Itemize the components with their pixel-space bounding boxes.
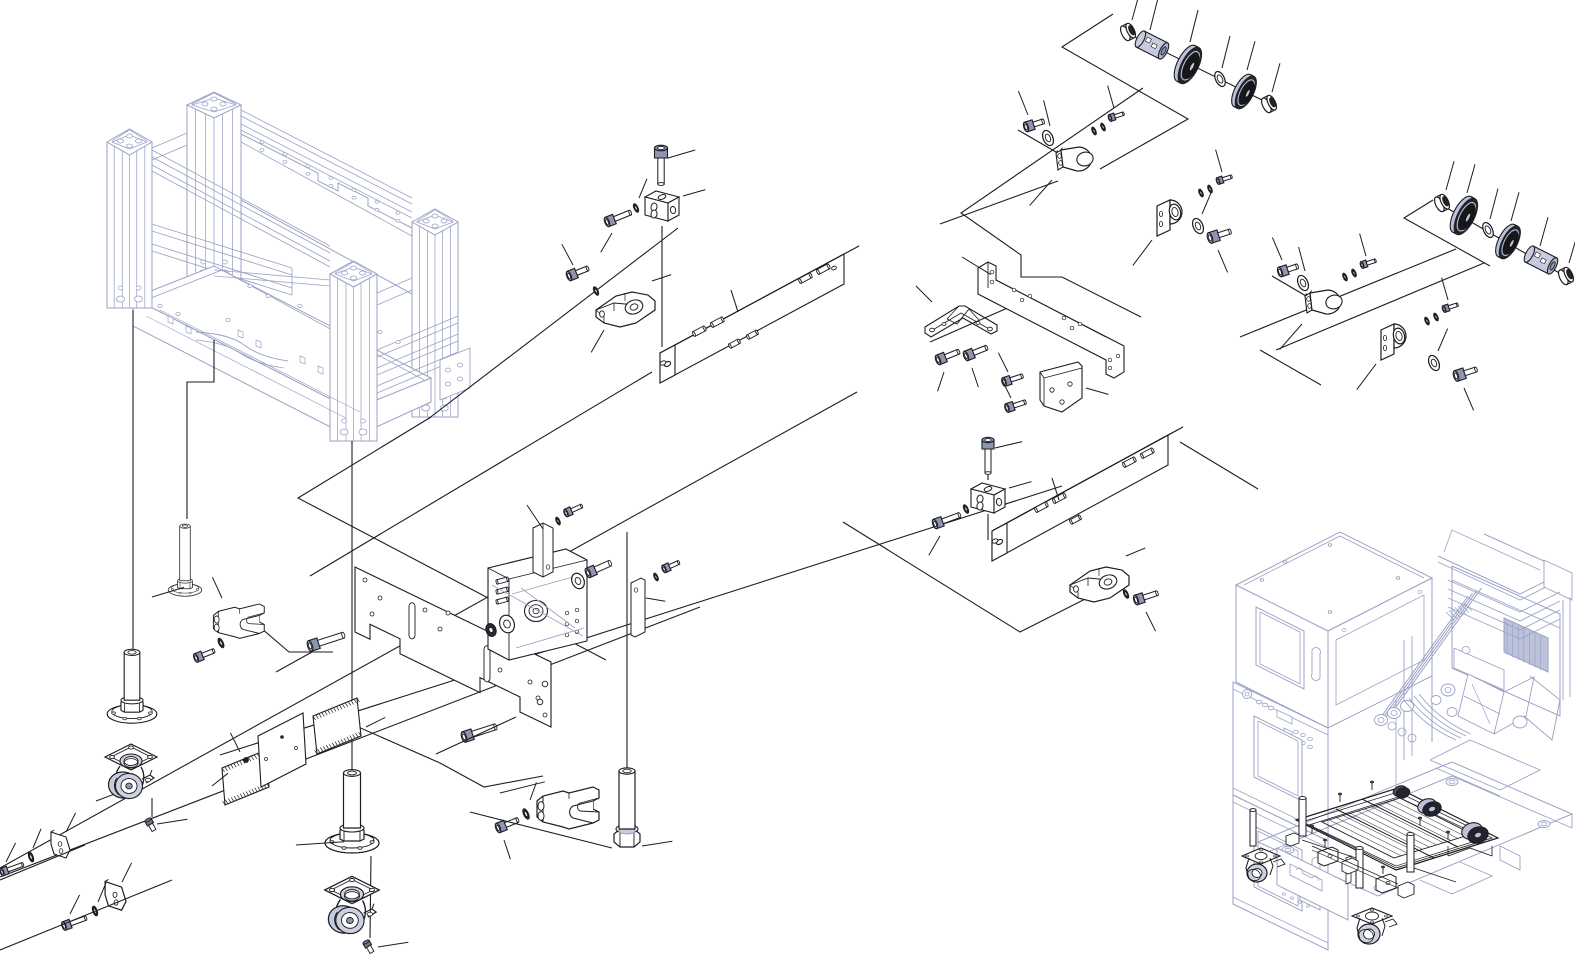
small bolt G4 [1441,301,1459,313]
machine mid front face [1233,682,1328,841]
machine cable loops [1388,722,1396,730]
screw dot on H2 [244,758,249,763]
washer above S1 [555,517,561,526]
tick AB2 [122,863,132,882]
cart roller right 2 [1459,820,1484,842]
leader cube K1 to beam B1 [661,226,663,347]
cart roller right 1 [1416,796,1439,816]
bolt T1 vertical [655,145,668,185]
construction line V through centre [298,417,606,660]
beam B1 [659,246,859,383]
mid rails left opening [152,224,292,268]
small bolt G1 [1107,110,1125,122]
cart caster 1 [1242,848,1285,882]
tick CB1-b [972,368,978,387]
zigzag leader below beam B2 [843,522,1105,632]
axis bolt right lower [436,717,516,754]
leader caster C1 to set screw [151,798,153,817]
leader step from P1 to foot F2 [187,340,214,519]
deck fitting bolts [248,285,252,288]
machine head top face [1236,532,1432,631]
plate A boss hole [525,601,548,622]
assembled machine ghost view [1233,530,1572,950]
corner bracket CB1 [925,306,997,337]
plate A with boss [488,549,587,660]
leveling foot F2 small [168,524,201,596]
plate A pins [496,577,509,585]
cart post 4 [1250,810,1256,846]
apron cutout curve [196,332,288,361]
tick bolt AB2 [70,895,80,914]
beam B2 [991,427,1183,561]
tick small bolt G3 [1360,234,1366,256]
bolt CB1-a [934,347,961,366]
bolt G1 [1022,116,1045,132]
cart bolt studs [1339,795,1341,802]
tick set screw C2 [378,942,408,947]
tick H2 screw [230,733,240,752]
bolt K2 vertical [982,437,994,474]
cart post 2 [1356,848,1363,888]
bolt above S2 [661,558,681,573]
tick WD1 low [591,330,604,352]
washer above S2 [653,573,659,582]
cart caster 2 [1352,908,1397,945]
wedge bracket WD2 [1070,567,1129,602]
bolt for clevis V1 [192,646,216,663]
axis AB2 [0,880,172,950]
machine feeder tray [1454,648,1504,690]
machine base inner line [1282,776,1452,846]
machine control row [1256,700,1261,704]
construction diagonal to bracket G3 lower [1276,263,1484,350]
tick WD1 [652,275,671,281]
small washers G3 [1342,273,1348,282]
tick G3 [1280,324,1302,350]
spacer A [1133,29,1171,60]
machine base corner pads [1282,847,1294,854]
set screw under caster C1 [144,817,157,832]
tick bearing A2 [1247,41,1255,70]
machine inner column [1403,640,1405,760]
zigzag around roller group A [1062,14,1188,169]
small bolt G3 [1359,257,1377,269]
bracket G1 [1056,147,1095,171]
roller group B axis [1440,204,1568,278]
tick bolt T2 [601,233,612,252]
machine low door [1254,826,1302,911]
frame assembly (aluminium extrusion frame, ghost) [107,92,470,441]
axis G3 [1272,276,1306,296]
deck inner edge [146,270,424,380]
tick washer G1 [1044,100,1050,126]
washer T3 [592,286,599,296]
cart gauge strip [1346,856,1351,884]
tick CB1 [916,286,932,302]
bolt WD2 [1132,588,1159,605]
zigzag around roller group B [1404,200,1490,266]
machine chute panels [1458,674,1504,734]
tick bolt G3 [1272,238,1282,260]
zigzag frame bracket G2 region [961,88,1143,317]
machine lower right arm [1430,740,1540,790]
back top rail [241,110,412,198]
cart deck outer rail [1296,788,1498,870]
zigzag leader to clevis V2 [356,726,543,787]
long construction diagonal D1 [0,607,700,877]
washer K2 [962,504,969,514]
leader line from P2 to foot F1 [132,310,134,700]
cross bar with holes [978,262,1124,378]
small bolt G2 [1215,173,1233,185]
plain plate H2 [258,713,306,787]
caster C1 [105,744,157,800]
nut B2 [1557,266,1575,286]
nut A1 [1119,22,1138,42]
machine belt rollers top [1441,684,1455,696]
small washers G1 [1091,127,1097,136]
cart side brace [1302,840,1356,858]
tick beam B2 [1052,478,1059,500]
back post P1 [187,105,241,282]
axis long bolt [276,652,312,672]
tick cube K2 [1009,482,1031,488]
L bracket LB1 [1040,362,1082,412]
cart valve block 2 [1376,874,1396,893]
bolt T3 [565,263,590,281]
machine base plate [1258,762,1572,896]
tick bolt V2 [504,840,510,859]
cart fitting 1 [1342,858,1358,874]
machine hose bundle [1404,700,1456,740]
right apron [352,378,431,438]
leader bracket G2 to bar [940,181,1058,224]
machine right arm lower [1524,676,1560,740]
tick spacer B [1540,217,1548,246]
cart deck inner rail [1302,792,1492,868]
machine control knob [1243,690,1252,699]
cube K2 [971,483,1005,513]
clevis V2 [537,787,599,829]
machine low handle [1312,858,1321,891]
bolt above S1 [563,502,584,517]
machine drawer dots [1283,893,1286,895]
set screw under caster C2 [362,939,375,954]
back post P3 [412,222,458,417]
long construction diagonal D1b [220,486,1062,755]
roller group A axis [1125,32,1270,104]
nut B1 [1433,193,1452,213]
bearing A1 [1169,42,1206,87]
tick nut A1 [1132,0,1140,20]
plate corner holes right [537,699,543,705]
nut A2 [1260,94,1279,114]
bolt clevis V2 [494,815,520,833]
tick bar [962,257,991,275]
plate A ghost lines [492,585,583,636]
machine head door [1256,607,1304,689]
bolt AB2 [61,914,88,931]
cart deck second rail [1309,797,1485,866]
tick G2 [1133,240,1152,266]
bolt AB1 [0,860,25,876]
construction diagonal from beam B1 right end [0,392,857,868]
big washer G2 [1190,217,1205,236]
big washer above plate A [569,571,586,590]
tick foot F1 [96,787,134,801]
tick AB1 [66,813,76,832]
axis CB1 [930,306,1012,342]
cart fitting 3 [1286,833,1299,846]
machine pulley circles [1431,696,1441,705]
tick LB1-a [998,353,1008,372]
machine tray stack [1448,580,1560,612]
hatched plate H3 [313,698,361,754]
front post P4 [330,274,377,441]
leader to beam B2 right end [1180,442,1258,489]
apron capsule slot 1 [336,311,350,354]
tick H1 [212,773,228,786]
tick LB1 [1086,388,1108,394]
shoulder bolt above plate A [584,558,613,578]
back panel inner line [241,142,412,236]
back panel stepped [241,134,412,228]
long bolt left of plates [306,630,346,652]
bracket G2 [1157,200,1182,236]
washer for clevis V1 [217,638,225,649]
spacer B [1522,244,1560,275]
tick S1 [527,505,543,529]
tick small bolt G1 [1108,86,1114,108]
washer W-A1 [497,613,517,635]
machine head handle 2 [1332,642,1341,675]
stem foot F3 [614,768,640,847]
machine head front face [1236,585,1328,728]
tick big washer G4 [1438,329,1448,351]
washer WD2 [1122,589,1129,599]
cart fitting 2 [1398,882,1414,898]
tick socket bolt G4 [1464,388,1474,410]
tick cube K1 [683,190,705,196]
caster C2 [325,876,380,935]
tick washer T2 [639,179,647,198]
machine scissor arms [1376,596,1468,724]
axis clevis V2 to foot F3 [470,812,612,848]
cart cross member 1 [1336,809,1434,858]
apron small holes [168,316,173,324]
cart post 3 [1407,834,1414,872]
tick foot F4 [296,842,344,845]
bracket G3 [1305,290,1344,314]
tick small bolt G2 [1216,150,1222,172]
socket bolt G4 [1452,364,1479,382]
tick bolt AB1 [6,843,16,862]
bearing A2 [1227,71,1260,112]
small washers G4 [1424,317,1430,326]
apron capsule slot 2 [358,337,372,378]
machine far right post [1562,600,1564,700]
tick G1 [1030,180,1052,206]
bolt LB1-b [1004,398,1028,413]
plate slot 2 [484,646,490,682]
bearing B1 [1445,193,1482,238]
thin strip S2 [631,578,645,637]
wedge bracket WD1 [596,292,655,327]
bolt CB1-b [962,343,989,362]
tick big washer G2 [1202,192,1212,214]
zigzag below bracket G4 [1260,350,1321,385]
machine base notch [1420,862,1492,894]
tick spacer A [1150,0,1158,30]
hatched plate H1 [222,750,269,805]
tick small bolt G4 [1442,278,1448,300]
plate A bolt holes [565,611,569,615]
tick washer AB2 [98,883,106,902]
tick set screw C1 [157,819,187,824]
big washer G4 [1426,354,1441,373]
washer AB2 [91,906,98,917]
washer clevis V2 [522,808,531,820]
construction line cube to frame junction [428,228,678,419]
tick foot F2 [152,587,184,597]
washer B [1481,221,1496,239]
tick bearing B2 [1511,192,1519,221]
cart belt roller lines [1322,822,1394,858]
tick CB1-a [938,372,944,391]
tick WD2 [1126,548,1145,556]
bracket G4 [1381,324,1406,360]
tick washer A [1222,36,1230,68]
machine head right face [1328,578,1432,728]
tick nut B1 [1446,161,1454,190]
cart roller bracket [1448,848,1492,856]
cart valve block 1 [1318,847,1338,866]
machine base foot blocks [1300,886,1320,910]
cart belt surface [1322,798,1472,858]
front top rail [152,150,330,246]
bearing B2 [1491,221,1524,262]
bolt T2 [603,208,633,228]
bolt K2 side [931,510,962,529]
leader cube K2 to beam B2 [987,514,989,540]
machine right small box [1544,560,1572,600]
cart end pulley left [1392,784,1409,798]
tick clevis V1 [212,577,222,598]
leveling foot F1 [107,649,157,723]
front apron [133,298,352,438]
cart pipe [1312,846,1398,884]
tick washer G3 [1299,247,1305,271]
big washer G1 [1040,129,1055,148]
machine mid door [1254,716,1302,801]
tick washer B [1490,189,1498,219]
leveling foot F4 centre [325,770,379,853]
machine feeder dark block [1504,618,1548,672]
big washer G3 [1295,274,1310,293]
tick clevis V2 [500,782,545,793]
long bolt right lower [460,721,498,743]
deck cross brace [214,270,330,280]
machine right tower frame [1452,566,1560,716]
corner bracket plate right [440,348,470,400]
tick washer V2 [530,782,536,800]
leader vertical to foot F3 [626,532,628,770]
side top rail left [152,133,187,148]
cart assembled stand [1242,781,1498,945]
plate holes [378,596,382,600]
washer A [1213,70,1228,88]
base side plate long [355,567,551,727]
machine control cluster 2 [1294,730,1299,733]
axis AB1 [0,845,85,880]
machine drawer panel [1277,848,1348,920]
machine low front face [1233,795,1328,950]
construction diagonal from beam B1 left end [310,372,652,576]
tick nut A2 [1272,63,1280,92]
tick nut B2 [1569,236,1575,263]
tick bearing A1 [1190,10,1198,42]
bolt LB1-a [1001,372,1025,387]
angle bracket AB1 [51,830,70,858]
bolt G3 [1276,261,1299,277]
leader foot F4 to set screw [370,856,371,938]
construction diagonal to bracket G3 [1240,249,1456,337]
tick bolt WD2 [1146,612,1156,631]
thin strip S1 [533,523,553,577]
machine spring pack [1446,612,1454,620]
tick bolt T1 [668,150,695,158]
tick socket bolt G2 [1218,250,1228,272]
lower right rails [377,316,458,350]
tick washer AB1 [33,829,41,848]
tick bolt G1 [1018,91,1028,115]
nut small left of plate A [484,622,498,638]
zigzag leader near clevis V1 [261,628,333,652]
deck top face [133,266,431,410]
plate slot 1 [409,603,415,639]
cart post 1 [1299,798,1306,836]
tick beam B1 [731,290,738,312]
deck inner panel lines [160,310,360,412]
side top rail right [377,278,412,293]
tick LB1-b [1001,379,1011,398]
tick bolt K2 side [929,536,940,555]
angle bracket AB2 [105,879,126,910]
machine right body edge [1327,728,1329,950]
machine upper right roof [1438,534,1566,594]
tick G4 [1357,364,1376,390]
washer AB1 [27,852,34,863]
leader bolt to cube K2 [987,474,989,480]
washer T2 [632,203,639,213]
front post P2 [107,142,152,308]
tick foot F3 [642,841,672,846]
socket bolt G2 [1206,226,1233,244]
cart cross member 2 [1362,799,1458,847]
clevis V1 [213,604,264,638]
small washers G2 [1198,189,1204,198]
cube K1 [645,191,679,221]
machine arm pivots [1375,715,1388,726]
tick bearing B1 [1467,164,1475,193]
machine head handle 1 [1312,648,1321,681]
tick bolt K2 [995,442,1022,448]
tick H3 [366,717,385,727]
leader line from P4 to foot F4 [351,441,353,772]
tick bolt T3 [562,244,573,265]
tick S2 [646,598,665,601]
axis G1 [1018,130,1056,152]
